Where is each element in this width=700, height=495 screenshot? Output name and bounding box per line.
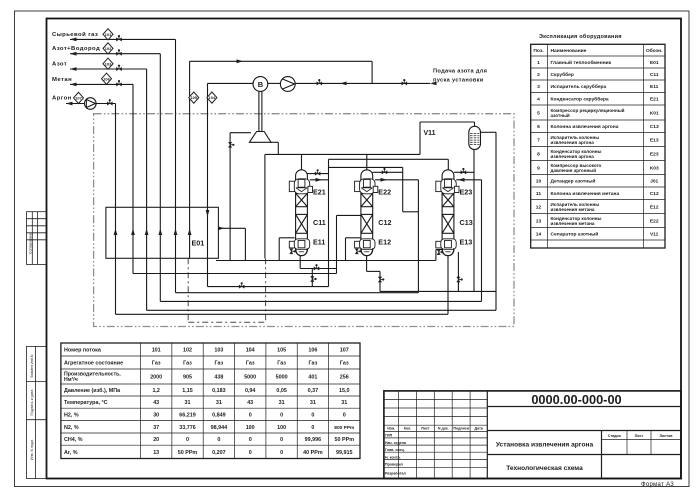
svg-text:105: 105	[190, 95, 197, 100]
svg-text:6: 6	[537, 124, 540, 130]
svg-text:99,915: 99,915	[336, 450, 353, 456]
svg-text:0,849: 0,849	[212, 412, 226, 418]
svg-text:0: 0	[343, 412, 346, 418]
svg-text:N док.: N док.	[438, 427, 449, 431]
svg-text:99,996: 99,996	[305, 437, 322, 443]
svg-text:102: 102	[183, 348, 192, 354]
svg-text:Стадия: Стадия	[608, 434, 621, 438]
svg-text:66,219: 66,219	[179, 412, 196, 418]
svg-text:C11: C11	[313, 218, 326, 227]
svg-text:C12: C12	[378, 218, 391, 227]
svg-text:Взамен инв.N: Взамен инв.N	[30, 354, 34, 377]
svg-text:Наименование: Наименование	[551, 48, 587, 54]
svg-text:13: 13	[153, 450, 159, 456]
svg-text:J01: J01	[650, 179, 658, 185]
svg-text:Подпись и дата: Подпись и дата	[30, 390, 34, 416]
svg-text:E23: E23	[650, 151, 659, 157]
svg-text:3: 3	[537, 84, 540, 90]
svg-text:31: 31	[216, 400, 222, 406]
svg-text:давления аргонный: давления аргонный	[551, 167, 597, 173]
svg-text:Конденсатор скруббера: Конденсатор скруббера	[551, 96, 609, 103]
svg-text:V11: V11	[650, 232, 659, 238]
svg-text:12: 12	[536, 204, 542, 210]
svg-text:2: 2	[537, 72, 540, 78]
svg-text:Н. контр.: Н. контр.	[385, 455, 401, 459]
svg-text:Главный теплообменник: Главный теплообменник	[551, 59, 612, 66]
svg-text:Азот+Водород: Азот+Водород	[52, 46, 100, 52]
svg-text:401: 401	[308, 375, 317, 381]
svg-text:ГИП: ГИП	[385, 434, 393, 438]
svg-text:E13: E13	[650, 137, 659, 143]
svg-text:Технологическая схема: Технологическая схема	[506, 465, 583, 472]
svg-text:5000: 5000	[244, 375, 256, 381]
svg-text:E22: E22	[378, 188, 391, 197]
svg-text:4: 4	[537, 97, 540, 103]
svg-text:102: 102	[105, 46, 112, 51]
svg-text:C11: C11	[650, 72, 659, 78]
svg-text:Подача азота для: Подача азота для	[433, 69, 487, 75]
svg-text:800 PPm: 800 PPm	[334, 425, 354, 431]
svg-text:Газ: Газ	[215, 361, 224, 367]
svg-text:Колонна извлечения аргона: Колонна извлечения аргона	[551, 124, 619, 130]
svg-text:Испаритель скруббера: Испаритель скруббера	[551, 83, 607, 90]
svg-text:Газ: Газ	[152, 361, 161, 367]
svg-text:Разработал: Разработал	[385, 472, 406, 476]
svg-text:37: 37	[153, 425, 159, 431]
svg-text:40 PPm: 40 PPm	[303, 450, 323, 456]
svg-text:50 PPm: 50 PPm	[178, 450, 198, 456]
svg-text:0: 0	[249, 437, 252, 443]
svg-text:Обозн.: Обозн.	[646, 47, 663, 54]
svg-text:Экспликация оборудования: Экспликация оборудования	[539, 33, 622, 40]
svg-text:Номер потока: Номер потока	[64, 348, 102, 354]
svg-text:Скруббер: Скруббер	[551, 71, 574, 78]
svg-text:Давление (изб.), МПа: Давление (изб.), МПа	[64, 387, 121, 394]
svg-text:905: 905	[183, 375, 192, 381]
svg-text:33,776: 33,776	[179, 425, 196, 431]
svg-text:E21: E21	[313, 188, 326, 197]
svg-text:В: В	[258, 80, 264, 89]
svg-text:2000: 2000	[150, 375, 162, 381]
svg-text:E13: E13	[460, 238, 473, 247]
svg-text:103: 103	[214, 348, 223, 354]
svg-text:Метан: Метан	[52, 77, 72, 83]
svg-text:13: 13	[536, 218, 542, 224]
svg-text:103: 103	[105, 61, 112, 66]
svg-text:0,94: 0,94	[245, 388, 256, 394]
svg-text:5000: 5000	[276, 375, 288, 381]
svg-text:50 PPm: 50 PPm	[335, 437, 355, 443]
svg-text:Газ: Газ	[340, 361, 349, 367]
svg-text:107: 107	[75, 96, 82, 101]
svg-text:Согласовано: Согласовано	[29, 232, 33, 254]
svg-text:Газ: Газ	[277, 361, 286, 367]
svg-text:Инв. N подл.: Инв. N подл.	[30, 439, 34, 460]
svg-text:E01: E01	[650, 60, 659, 66]
svg-text:1,2: 1,2	[152, 388, 160, 394]
svg-text:0000.00-000-00: 0000.00-000-00	[531, 392, 621, 407]
svg-text:CH4, %: CH4, %	[64, 437, 83, 443]
svg-text:N2, %: N2, %	[64, 425, 79, 431]
svg-text:Формат А3: Формат А3	[641, 482, 674, 488]
svg-text:0,05: 0,05	[276, 388, 287, 394]
svg-text:Сепаратор азотный: Сепаратор азотный	[551, 231, 599, 238]
svg-text:0: 0	[217, 437, 220, 443]
svg-text:Установка извлечения аргона: Установка извлечения аргона	[496, 442, 594, 449]
svg-text:извлечения метана: извлечения метана	[551, 221, 595, 226]
svg-text:43: 43	[153, 400, 159, 406]
svg-text:Температура, °С: Температура, °С	[64, 400, 108, 406]
svg-text:Нм³/ч: Нм³/ч	[64, 377, 78, 383]
svg-text:0,207: 0,207	[212, 450, 226, 456]
svg-text:15,0: 15,0	[339, 388, 350, 394]
svg-text:азотный: азотный	[551, 112, 570, 118]
svg-text:31: 31	[341, 400, 347, 406]
svg-text:Детандер азотный: Детандер азотный	[551, 178, 596, 185]
svg-text:Кол.: Кол.	[404, 427, 412, 431]
svg-text:Ar, %: Ar, %	[64, 450, 78, 456]
svg-text:C13: C13	[650, 124, 659, 130]
svg-text:106: 106	[308, 348, 317, 354]
svg-text:E11: E11	[313, 238, 325, 247]
svg-text:C13: C13	[460, 218, 473, 227]
svg-text:Газ: Газ	[246, 361, 255, 367]
svg-text:E22: E22	[650, 218, 659, 224]
svg-text:14: 14	[536, 232, 542, 238]
svg-text:пуска установки: пуска установки	[433, 78, 484, 84]
svg-text:100: 100	[246, 425, 255, 431]
svg-text:K01: K01	[650, 110, 659, 116]
svg-text:104: 104	[209, 95, 216, 100]
svg-text:438: 438	[214, 375, 223, 381]
svg-text:Лист: Лист	[421, 427, 430, 431]
svg-text:E23: E23	[460, 188, 473, 197]
svg-text:Азот: Азот	[52, 61, 67, 67]
svg-text:Колонна извлечения метана: Колонна извлечения метана	[551, 191, 620, 197]
svg-text:105: 105	[277, 348, 286, 354]
svg-text:извлечения метана: извлечения метана	[551, 207, 595, 212]
svg-text:31: 31	[279, 400, 285, 406]
svg-text:0: 0	[280, 450, 283, 456]
svg-text:0: 0	[311, 412, 314, 418]
svg-text:Листов: Листов	[660, 434, 674, 438]
svg-text:256: 256	[340, 375, 349, 381]
svg-text:Дата: Дата	[475, 427, 484, 431]
svg-text:Аргон: Аргон	[52, 95, 72, 101]
svg-text:10: 10	[536, 179, 542, 185]
svg-text:Поз.: Поз.	[533, 48, 544, 54]
svg-text:извлечения аргона: извлечения аргона	[551, 140, 595, 145]
svg-text:E12: E12	[378, 238, 391, 247]
svg-text:Газ: Газ	[309, 361, 318, 367]
svg-text:43: 43	[247, 400, 253, 406]
svg-text:Глав. спец.: Глав. спец.	[385, 448, 405, 452]
svg-text:30: 30	[153, 412, 159, 418]
svg-text:Подписи: Подписи	[453, 427, 469, 431]
svg-text:7: 7	[537, 137, 540, 143]
svg-text:V11: V11	[424, 130, 436, 137]
svg-text:100: 100	[277, 425, 286, 431]
svg-text:K03: K03	[650, 165, 659, 171]
svg-text:Нач. отдела: Нач. отдела	[385, 441, 407, 445]
svg-text:Проверил: Проверил	[385, 463, 404, 467]
svg-text:Сырьевой газ: Сырьевой газ	[52, 31, 98, 38]
svg-text:0: 0	[249, 412, 252, 418]
svg-text:11: 11	[536, 191, 541, 197]
svg-text:31: 31	[185, 400, 191, 406]
svg-text:E01: E01	[192, 239, 205, 248]
svg-text:98,944: 98,944	[211, 425, 228, 431]
svg-text:H2, %: H2, %	[64, 412, 79, 418]
svg-text:извлечения аргона: извлечения аргона	[551, 154, 595, 159]
svg-text:9: 9	[537, 165, 540, 171]
svg-text:E12: E12	[650, 204, 659, 210]
svg-text:5: 5	[537, 110, 540, 116]
svg-text:Газ: Газ	[183, 361, 192, 367]
svg-text:101: 101	[105, 32, 112, 37]
svg-text:0: 0	[280, 437, 283, 443]
svg-text:E21: E21	[650, 97, 659, 103]
svg-text:Изм.: Изм.	[387, 427, 395, 431]
svg-text:1,15: 1,15	[182, 388, 193, 394]
svg-text:106: 106	[103, 76, 110, 81]
svg-text:20: 20	[153, 437, 159, 443]
svg-text:1: 1	[537, 60, 540, 66]
svg-text:107: 107	[340, 348, 349, 354]
svg-text:104: 104	[246, 348, 255, 354]
svg-text:101: 101	[152, 348, 161, 354]
svg-text:0: 0	[186, 437, 189, 443]
svg-text:Агрегатное состояние: Агрегатное состояние	[64, 361, 123, 367]
svg-text:C12: C12	[650, 191, 659, 197]
svg-text:31: 31	[310, 400, 316, 406]
svg-text:0: 0	[249, 450, 252, 456]
svg-text:0,37: 0,37	[308, 388, 319, 394]
svg-text:E11: E11	[650, 84, 659, 90]
svg-text:0,183: 0,183	[212, 388, 226, 394]
svg-text:8: 8	[537, 151, 540, 157]
svg-text:0: 0	[280, 412, 283, 418]
svg-text:Лист: Лист	[635, 434, 644, 438]
svg-text:0: 0	[311, 425, 314, 431]
